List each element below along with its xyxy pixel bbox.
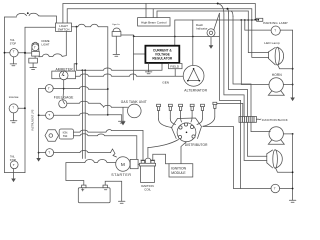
svg-text:SWITCH: SWITCH bbox=[58, 27, 70, 31]
svg-text:T: T bbox=[13, 163, 15, 167]
light switch LS1 bbox=[56, 23, 72, 31]
svg-text:T: T bbox=[48, 151, 50, 155]
speaker / sealed beam bbox=[244, 150, 293, 173]
bus2 ammeter to alternator bbox=[76, 75, 184, 77]
svg-text:COIL: COIL bbox=[144, 187, 151, 191]
battery cable from bus bbox=[82, 70, 85, 158]
svg-text:MODULE: MODULE bbox=[171, 171, 186, 175]
high beam control bbox=[138, 18, 170, 26]
battery ground bbox=[105, 181, 122, 201]
svg-text:Cigar Ltr: Cigar Ltr bbox=[112, 23, 120, 26]
ign sw to coil wire bbox=[74, 130, 144, 160]
wire bundle verticals turning right then down through junction block bbox=[219, 13, 240, 188]
wire to horn bbox=[241, 20, 269, 85]
instrument lamp bbox=[45, 85, 53, 93]
right bus lower bbox=[292, 134, 294, 200]
battery bbox=[78, 188, 110, 203]
wire spark plug 6 to junction block bbox=[217, 103, 243, 116]
svg-text:T: T bbox=[34, 45, 36, 49]
bottom right lamp bbox=[271, 184, 280, 193]
ground bbox=[13, 169, 15, 179]
right bus upper bbox=[292, 30, 294, 97]
svg-text:TAIL: TAIL bbox=[10, 39, 15, 42]
wire breaker to accessory bus bbox=[121, 35, 219, 37]
ignition switch key bbox=[45, 130, 59, 141]
svg-text:T: T bbox=[12, 105, 14, 109]
gage to tank sender wire bbox=[39, 114, 46, 116]
svg-text:T: T bbox=[274, 187, 276, 191]
field box bbox=[169, 64, 183, 69]
svg-text:STOP: STOP bbox=[10, 43, 17, 45]
current &amp; voltage regulator bbox=[145, 46, 179, 63]
wire inst vertical bbox=[38, 88, 40, 158]
svg-text:LIGHT: LIGHT bbox=[42, 42, 50, 46]
wires light switch top to buses bbox=[63, 4, 255, 24]
svg-text:DISTRIBUTOR: DISTRIBUTOR bbox=[185, 143, 208, 147]
svg-text:T: T bbox=[48, 86, 50, 90]
alternator bbox=[183, 65, 204, 86]
ignition coil bbox=[139, 158, 155, 182]
svg-text:FUEL GAGE: FUEL GAGE bbox=[54, 95, 74, 99]
plug wires to distributor cap bbox=[159, 117, 215, 128]
ground bbox=[115, 36, 117, 54]
spark plugs bbox=[157, 102, 217, 119]
distributor bbox=[172, 118, 202, 139]
connector end of bus bbox=[257, 18, 263, 21]
wire instrument feed vertical bbox=[76, 27, 78, 71]
svg-text:T: T bbox=[13, 50, 15, 54]
svg-text:GAS TANK UNIT: GAS TANK UNIT bbox=[121, 100, 147, 104]
svg-text:LED Lamp: LED Lamp bbox=[264, 41, 280, 45]
gas tank ground bbox=[122, 108, 124, 122]
wire dome to light switch (bumps) bbox=[39, 31, 66, 56]
svg-text:High Beam Control: High Beam Control bbox=[141, 20, 167, 24]
svg-text:ALTERNATOR: ALTERNATOR bbox=[184, 88, 207, 92]
wire right vertical tail feed bbox=[24, 27, 26, 172]
horn lower bbox=[268, 139, 284, 144]
regulator ground bbox=[148, 63, 150, 72]
wire regulator left bbox=[133, 37, 135, 81]
wire bus A drop to high beam control bbox=[145, 4, 147, 18]
wire left vertical tail feed bbox=[4, 17, 6, 173]
svg-text:INSTRUMENT LPS: INSTRUMENT LPS bbox=[32, 109, 35, 130]
svg-text:M: M bbox=[121, 162, 125, 168]
lamp at ign bbox=[39, 152, 46, 154]
svg-text:DOME: DOME bbox=[42, 39, 50, 43]
wire distributor to coil bbox=[148, 140, 179, 158]
ground bbox=[13, 113, 15, 121]
svg-text:IGN.: IGN. bbox=[63, 130, 69, 134]
instrument lamp 2 bbox=[46, 111, 54, 119]
ground bbox=[32, 63, 34, 68]
wire to parking lamp bbox=[245, 20, 271, 30]
wire distributor to module bbox=[181, 142, 187, 164]
svg-text:T: T bbox=[48, 113, 50, 117]
wire coil to ignition module bbox=[153, 154, 169, 163]
wire lamp bus to tank bbox=[64, 88, 108, 91]
svg-text:Indicator: Indicator bbox=[196, 27, 208, 31]
junction block bbox=[239, 117, 261, 123]
svg-text:SW.: SW. bbox=[63, 134, 68, 138]
svg-text:JUNCTION BLOCK: JUNCTION BLOCK bbox=[262, 118, 288, 122]
junction dot bbox=[27, 12, 29, 14]
wire regulator feed loop bbox=[175, 20, 193, 37]
svg-text:GEN: GEN bbox=[162, 81, 169, 85]
ammeter to fuel gage bbox=[62, 80, 65, 100]
svg-text:STARTER: STARTER bbox=[111, 173, 131, 177]
starter bbox=[116, 157, 130, 171]
ground on sender wire bbox=[108, 115, 122, 121]
svg-text:T: T bbox=[274, 29, 276, 33]
svg-text:FIELD: FIELD bbox=[170, 65, 180, 69]
wire light switch right with connectors bbox=[72, 24, 108, 115]
wire dome to tail bus bbox=[25, 52, 32, 54]
feeds from accessory bus y20 bbox=[240, 19, 242, 21]
svg-text:HORN: HORN bbox=[272, 73, 283, 77]
top right curves into bundle bbox=[218, 4, 224, 15]
svg-text:REGULATOR: REGULATOR bbox=[152, 56, 173, 60]
svg-text:IGNITION: IGNITION bbox=[171, 167, 187, 171]
wire hbc right run bbox=[157, 11, 248, 18]
svg-text:TAIL: TAIL bbox=[10, 156, 15, 159]
wire drop to regulator top bbox=[174, 37, 176, 46]
svg-text:License: License bbox=[9, 95, 19, 99]
wire from distributor cap down right side bbox=[203, 127, 234, 189]
wire headlight feed top-left with connectors bbox=[5, 13, 57, 23]
wire drop to alternator top bbox=[192, 37, 194, 66]
battery cable bumps bbox=[66, 160, 116, 186]
bus1 to regulator GEN bbox=[77, 63, 163, 70]
ignition module bbox=[169, 164, 193, 177]
dome light switch bbox=[34, 56, 36, 58]
svg-text:AMMETER: AMMETER bbox=[56, 67, 74, 71]
wire lamp to starter resistor bbox=[54, 152, 111, 154]
wires to LED lamp bbox=[248, 11, 268, 53]
ground bbox=[12, 57, 14, 64]
svg-text:PARKING LAMP: PARKING LAMP bbox=[263, 21, 287, 25]
